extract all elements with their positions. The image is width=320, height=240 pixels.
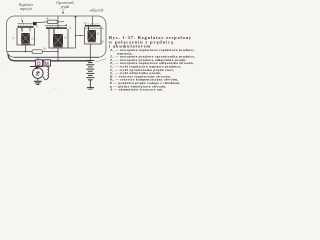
relay: ogranicznik prądu — [45, 25, 72, 49]
relay frame — [17, 28, 35, 45]
coil core Z3 Z4 — [88, 30, 97, 41]
svg-text:prądu: prądu — [60, 5, 70, 9]
battery A — [86, 61, 94, 88]
contact anchor block — [33, 22, 37, 25]
wire: middle relay bottom to rail — [57, 48, 59, 61]
svg-text:Z4: Z4 — [101, 40, 104, 43]
svg-text:S1: S1 — [36, 26, 38, 29]
hatched contact bar S3 — [86, 23, 99, 25]
core base plate — [88, 41, 96, 42]
node: dot on Z4 wire — [80, 35, 81, 36]
terminal box M — [44, 60, 51, 68]
node: junction on top edge — [75, 16, 77, 18]
wire to housing left — [76, 35, 85, 37]
label: Ogranicznik prądu — [56, 1, 74, 9]
wire: drop to right relay — [92, 17, 94, 26]
svg-text:S2: S2 — [69, 26, 71, 29]
svg-text:S3: S3 — [101, 27, 103, 30]
field coil — [43, 66, 49, 80]
wire: lower horizontal with R2 — [7, 51, 58, 53]
caption legend — [110, 48, 195, 92]
speckles — [55, 88, 56, 89]
node: junction at R2 wire — [57, 51, 58, 52]
relay: regulator napięcia — [17, 22, 39, 45]
resistor R2 — [32, 47, 46, 53]
hatched contact bar S1 — [18, 24, 31, 26]
terminal box D — [36, 60, 43, 68]
svg-text:Z1: Z1 — [31, 37, 34, 40]
contact pillar — [21, 28, 23, 32]
node: junction at Z4 feed — [75, 35, 76, 36]
hatched contact bar S2 — [47, 26, 60, 27]
svg-text:Z3: Z3 — [97, 33, 100, 36]
arrow to ogranicznik relay — [62, 9, 63, 14]
node: brush arrow — [35, 67, 38, 70]
spring curl — [85, 23, 86, 25]
core base plate — [53, 46, 62, 47]
armature under bar — [85, 27, 101, 29]
svg-text:R2: R2 — [43, 47, 47, 51]
coil core Z2 — [53, 34, 63, 46]
node: junction — [25, 51, 26, 52]
node: rail junctions — [57, 60, 59, 62]
wire: stub housing to box D — [37, 57, 39, 60]
svg-text:A — akumulator kwasowy aut.: A — akumulator kwasowy aut. — [110, 88, 164, 92]
label: Regulator napięcia — [18, 3, 34, 11]
wire: housing bottom emphasis — [14, 56, 99, 58]
regulator housing — [7, 16, 107, 57]
wire: to middle relay bottom — [68, 47, 76, 49]
wire: drop to middle relay — [57, 17, 59, 29]
ground under generator — [34, 78, 42, 84]
armature arm — [18, 22, 34, 24]
wire: box D to generator — [37, 66, 39, 68]
wire: battery top lead — [95, 59, 107, 62]
svg-text:Z2: Z2 — [64, 37, 67, 40]
arrow to regulator relay — [21, 18, 23, 24]
wire: stub under boxes — [30, 66, 43, 68]
wire: left relay bottom to lower wire — [25, 45, 27, 52]
svg-text:napięcia: napięcia — [20, 7, 33, 11]
svg-text:odłącznik: odłącznik — [90, 9, 104, 13]
relay frame — [49, 29, 68, 48]
svg-text:M: M — [45, 61, 49, 67]
coil core Z1 — [21, 33, 30, 43]
generator P — [33, 68, 44, 79]
ground under battery — [87, 88, 94, 90]
caption title — [109, 35, 192, 48]
wire: right relay to battery — [89, 44, 91, 61]
contact pillar — [53, 29, 55, 34]
relay: odłącznik — [76, 23, 104, 44]
contact pillar — [88, 27, 90, 30]
wire: long vertical between relays — [75, 17, 77, 48]
armature arm — [45, 25, 67, 27]
relay frame — [85, 27, 102, 44]
resistor R — [37, 17, 64, 24]
wire: bottom rail — [8, 54, 90, 61]
core base plate — [21, 44, 30, 45]
